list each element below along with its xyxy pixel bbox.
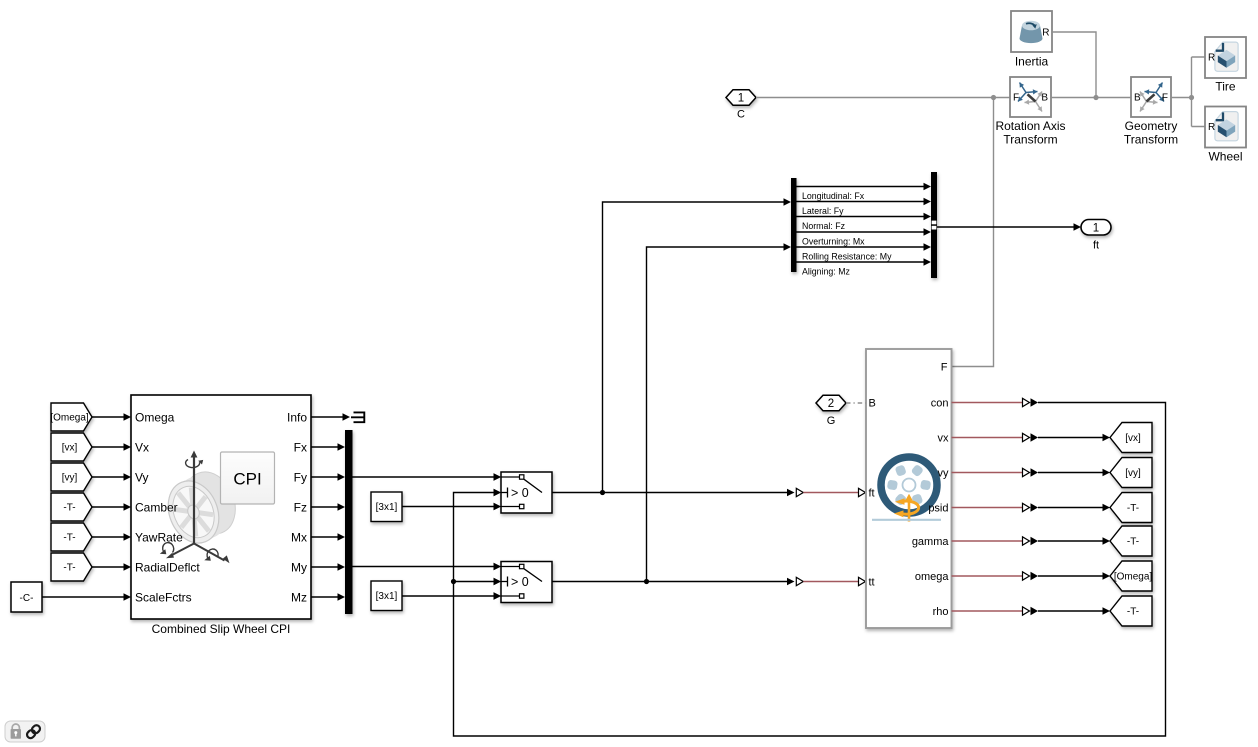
svg-text:Fz: Fz bbox=[294, 500, 307, 514]
terminator icon bbox=[351, 412, 364, 424]
svg-text:Longitudinal: Fx: Longitudinal: Fx bbox=[802, 191, 865, 201]
inport 2 (connection port G) bbox=[816, 395, 846, 411]
block Inertia bbox=[1011, 11, 1052, 52]
svg-text:B: B bbox=[869, 398, 876, 410]
switch 1 bbox=[501, 472, 552, 513]
svg-text:Normal: Fz: Normal: Fz bbox=[802, 221, 845, 231]
wire [3x1] lower to switch2 bbox=[402, 595, 494, 597]
signal Aligning: Mz bbox=[797, 261, 924, 263]
svg-text:F: F bbox=[1013, 93, 1019, 104]
svg-text:Transform: Transform bbox=[1003, 133, 1057, 147]
svg-text:YawRate: YawRate bbox=[135, 530, 183, 544]
wire Fx to mux bbox=[311, 446, 338, 448]
svg-text:Wheel: Wheel bbox=[1208, 150, 1242, 164]
svg-text:Vy: Vy bbox=[135, 470, 149, 484]
from tag [vy] bbox=[51, 463, 92, 491]
block Rotation Axis Transform bbox=[1010, 77, 1051, 117]
constant -C- bbox=[11, 582, 42, 612]
svg-text:-T-: -T- bbox=[63, 503, 75, 514]
wire rho to goto tag -T- bbox=[952, 610, 1023, 612]
switch 2 bbox=[501, 562, 552, 603]
svg-text:Tire: Tire bbox=[1215, 80, 1236, 94]
wire -T- to Combined Slip Wheel CPI bbox=[92, 506, 124, 508]
svg-text:Omega: Omega bbox=[135, 410, 175, 424]
svg-text:omega: omega bbox=[915, 571, 950, 583]
wire Geometry Transform F to Tire and Wheel bbox=[1171, 57, 1205, 127]
svg-text:[3x1]: [3x1] bbox=[376, 502, 398, 513]
svg-text:[Omega]: [Omega] bbox=[50, 413, 89, 424]
wire Fz to mux bbox=[311, 506, 338, 508]
svg-text:2: 2 bbox=[828, 398, 834, 410]
svg-text:[3x1]: [3x1] bbox=[376, 591, 398, 602]
subsystem wheel block bbox=[866, 349, 952, 628]
svg-text:Combined Slip Wheel CPI: Combined Slip Wheel CPI bbox=[152, 622, 291, 636]
wire -C- to ScaleFctrs bbox=[42, 596, 124, 598]
svg-text:ft: ft bbox=[1093, 240, 1099, 252]
block Geometry Transform bbox=[1131, 77, 1171, 117]
svg-text:Transform: Transform bbox=[1124, 133, 1178, 147]
svg-text:psid: psid bbox=[928, 503, 948, 515]
wire moments mux to switch2 bbox=[353, 566, 494, 568]
wire switch2 output up to demux input 2 bbox=[647, 247, 784, 582]
mux bar Fx-Mz bbox=[345, 430, 353, 614]
outport 1 (ft) bbox=[1081, 220, 1111, 236]
wire [3x1] upper to switch1 bbox=[402, 506, 494, 508]
wire Info to terminator bbox=[311, 416, 343, 418]
wire [Omega] to Combined Slip Wheel CPI bbox=[92, 416, 124, 418]
svg-text:C: C bbox=[737, 109, 745, 121]
svg-text:Camber: Camber bbox=[135, 500, 178, 514]
svg-text:con: con bbox=[931, 398, 949, 410]
svg-text:1: 1 bbox=[738, 93, 744, 105]
svg-text:-T-: -T- bbox=[63, 533, 75, 544]
svg-text:[vx]: [vx] bbox=[62, 443, 78, 454]
svg-text:Fx: Fx bbox=[294, 440, 307, 454]
wire My to mux bbox=[311, 566, 338, 568]
demux bar bbox=[791, 178, 797, 272]
from tag [Omega] bbox=[51, 403, 92, 431]
wire Rotation Axis Transform B to Geometry Transform B bbox=[1051, 97, 1131, 99]
wire forces mux to switch1 bbox=[353, 476, 494, 478]
svg-text:[Omega]: [Omega] bbox=[1114, 572, 1153, 583]
wire subsystem F up to C line bbox=[952, 98, 994, 367]
svg-text:F: F bbox=[941, 362, 948, 374]
svg-text:-C-: -C- bbox=[20, 593, 34, 604]
svg-text:B: B bbox=[1134, 93, 1141, 104]
svg-text:Info: Info bbox=[287, 410, 307, 424]
svg-text:[vy]: [vy] bbox=[62, 473, 78, 484]
svg-text:Inertia: Inertia bbox=[1015, 55, 1049, 69]
junction Geometry Transform output bbox=[1189, 95, 1194, 100]
goto tag [vx] (vx) bbox=[1110, 423, 1152, 453]
svg-text:-T-: -T- bbox=[1127, 537, 1139, 548]
svg-text:Aligning: Mz: Aligning: Mz bbox=[802, 267, 850, 277]
wire [vx] to Combined Slip Wheel CPI bbox=[92, 446, 124, 448]
svg-text:F: F bbox=[1162, 93, 1168, 104]
junction switch2 output bbox=[644, 579, 649, 584]
goto tag [vy] (vy) bbox=[1110, 458, 1152, 488]
wire Mx to mux bbox=[311, 536, 338, 538]
svg-text:R: R bbox=[1208, 122, 1215, 133]
goto tag -T- (gamma) bbox=[1110, 526, 1152, 556]
from tag -T- bbox=[51, 523, 92, 551]
svg-text:> 0: > 0 bbox=[511, 575, 529, 589]
svg-text:CPI: CPI bbox=[233, 470, 261, 489]
wire switch1 output up to demux input 1 bbox=[603, 202, 784, 493]
svg-text:Rotation Axis: Rotation Axis bbox=[995, 119, 1065, 133]
svg-text:R: R bbox=[1042, 28, 1049, 39]
wire omega to goto tag [Omega] bbox=[952, 575, 1023, 577]
from tag -T- bbox=[51, 493, 92, 521]
svg-text:Lateral: Fy: Lateral: Fy bbox=[802, 206, 844, 216]
dash-dot wire G to B bbox=[846, 402, 866, 404]
svg-text:Geometry: Geometry bbox=[1125, 119, 1178, 133]
svg-text:vy: vy bbox=[938, 468, 950, 480]
wire psid to goto tag -T- bbox=[952, 507, 1023, 509]
from tag [vx] bbox=[51, 433, 92, 461]
block Wheel bbox=[1205, 107, 1246, 148]
library lock badge bbox=[5, 721, 45, 742]
junction on C line bbox=[991, 95, 996, 100]
junction switch1 output bbox=[600, 490, 605, 495]
signal Normal: Fz bbox=[797, 216, 924, 218]
svg-text:> 0: > 0 bbox=[511, 486, 529, 500]
wire -T- to Combined Slip Wheel CPI bbox=[92, 566, 124, 568]
constant [3x1] upper bbox=[371, 492, 402, 522]
svg-text:rho: rho bbox=[933, 606, 949, 618]
wire -T- to Combined Slip Wheel CPI bbox=[92, 536, 124, 538]
junction feedback to switch2 bbox=[451, 579, 456, 584]
svg-text:gamma: gamma bbox=[912, 536, 950, 548]
wire C to Rotation Axis Transform bbox=[756, 97, 1010, 99]
signal Overturning: Mx bbox=[797, 231, 924, 233]
wire [vy] to Combined Slip Wheel CPI bbox=[92, 476, 124, 478]
svg-text:[vy]: [vy] bbox=[1125, 468, 1141, 479]
wire con feedback loop bbox=[952, 402, 1023, 404]
svg-text:My: My bbox=[291, 560, 307, 574]
svg-text:-T-: -T- bbox=[63, 563, 75, 574]
svg-text:Rolling Resistance: My: Rolling Resistance: My bbox=[802, 252, 892, 262]
wire Mz to mux bbox=[311, 596, 338, 598]
goto tag -T- (rho) bbox=[1110, 596, 1152, 626]
wire switch1 to subsystem ft bbox=[552, 492, 787, 494]
inport 1 (connection port C) bbox=[726, 90, 756, 106]
wire Inertia R to junction bbox=[1052, 32, 1096, 98]
svg-text:R: R bbox=[1208, 53, 1215, 64]
junction Inertia line bbox=[1093, 95, 1098, 100]
goto tag -T- (psid) bbox=[1110, 493, 1152, 523]
svg-text:Vx: Vx bbox=[135, 440, 149, 454]
svg-text:B: B bbox=[1041, 93, 1048, 104]
signal Rolling Resistance: My bbox=[797, 246, 924, 248]
svg-text:Mx: Mx bbox=[291, 530, 307, 544]
wire vx to goto tag [vx] bbox=[952, 437, 1023, 439]
wire mux to outport ft bbox=[937, 226, 1074, 228]
block Combined Slip Wheel CPI bbox=[131, 395, 311, 619]
wire gamma to goto tag -T- bbox=[952, 540, 1023, 542]
svg-text:Fy: Fy bbox=[294, 470, 307, 484]
svg-text:1: 1 bbox=[1093, 223, 1099, 235]
from tag -T- bbox=[51, 553, 92, 581]
svg-text:tt: tt bbox=[869, 577, 875, 589]
svg-text:-T-: -T- bbox=[1127, 503, 1139, 514]
svg-text:G: G bbox=[827, 415, 836, 427]
svg-text:ScaleFctrs: ScaleFctrs bbox=[135, 590, 192, 604]
goto tag [Omega] (omega) bbox=[1110, 561, 1152, 591]
block Tire bbox=[1205, 37, 1246, 78]
signal Longitudinal: Fx bbox=[797, 186, 924, 188]
wire Fy to mux bbox=[311, 476, 338, 478]
wire switch2 to subsystem tt bbox=[552, 581, 787, 583]
svg-text:-T-: -T- bbox=[1127, 607, 1139, 618]
svg-text:Overturning: Mx: Overturning: Mx bbox=[802, 237, 865, 247]
svg-text:ft: ft bbox=[869, 488, 875, 500]
svg-text:RadialDeflct: RadialDeflct bbox=[135, 560, 200, 574]
mux bar bbox=[931, 172, 937, 278]
svg-text:vx: vx bbox=[938, 433, 950, 445]
wire vy to goto tag [vy] bbox=[952, 472, 1023, 474]
constant [3x1] lower bbox=[371, 581, 402, 611]
svg-text:Mz: Mz bbox=[291, 590, 307, 604]
svg-text:[vx]: [vx] bbox=[1125, 433, 1141, 444]
signal Lateral: Fy bbox=[797, 201, 924, 203]
